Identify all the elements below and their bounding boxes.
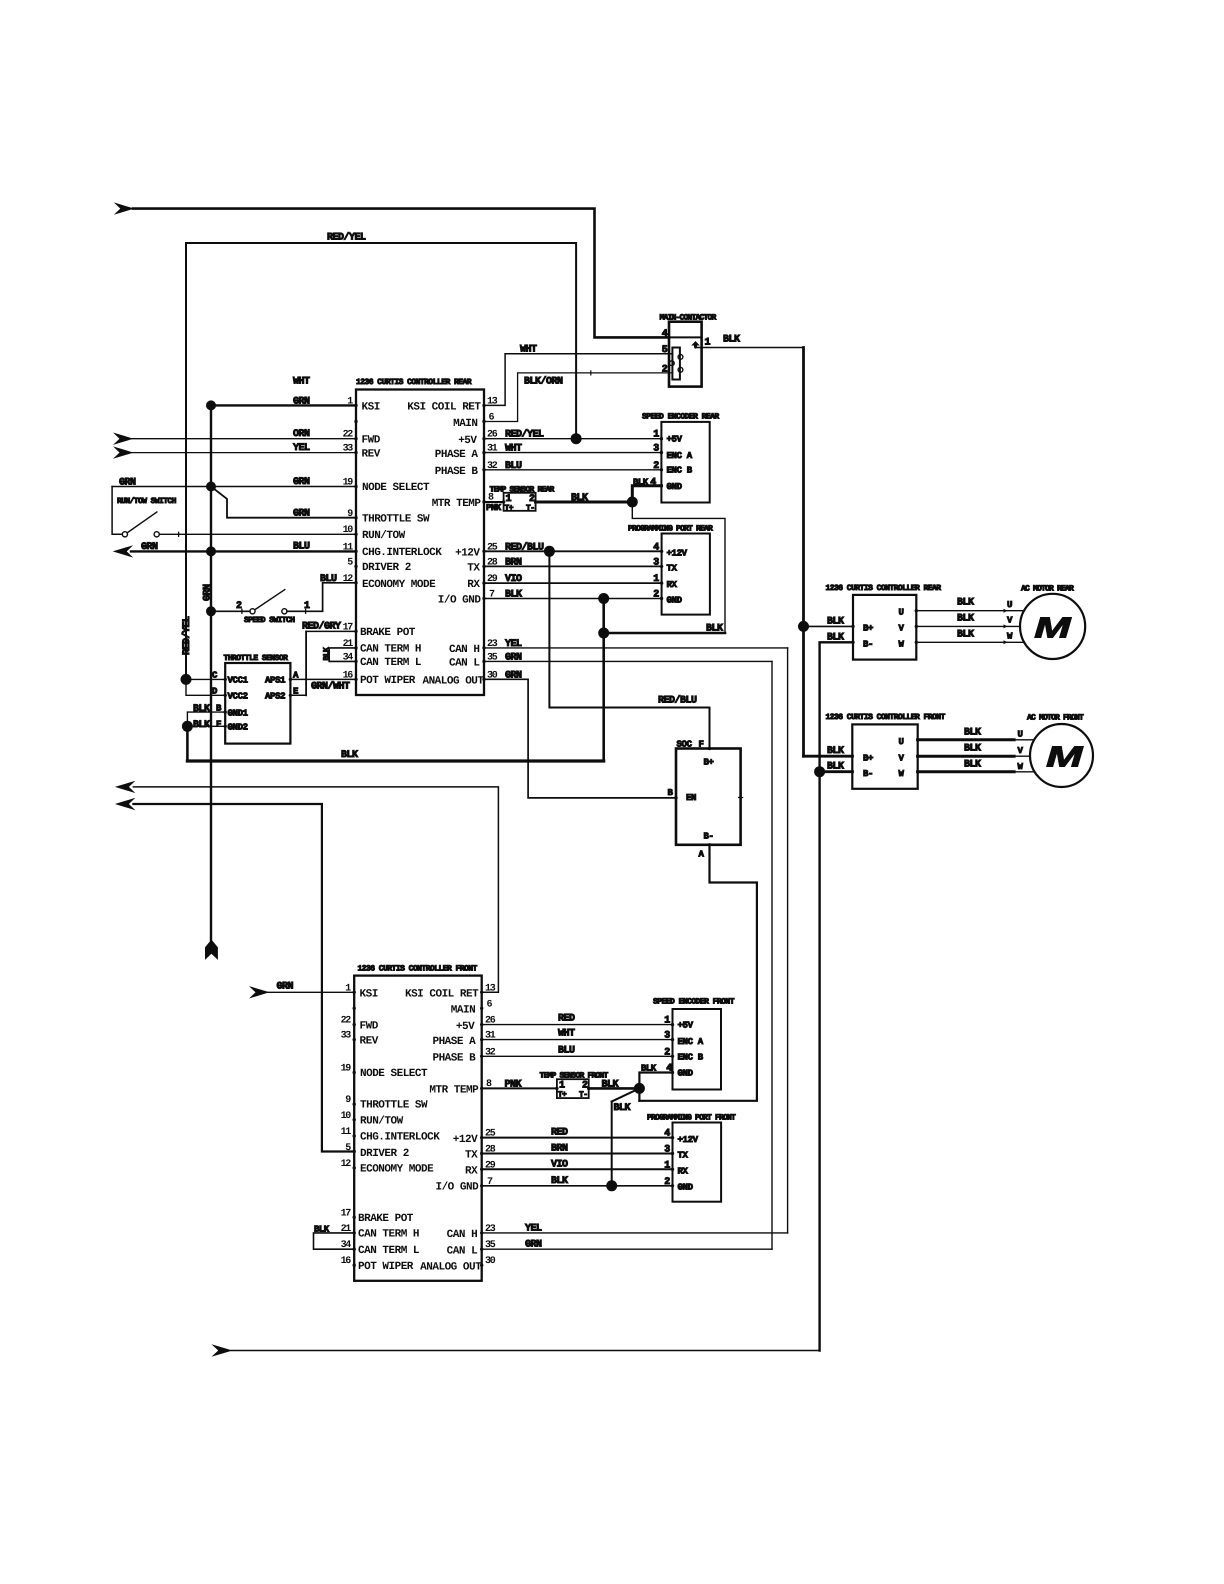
arrow feed FWD: [113, 433, 134, 445]
svg-text:GRN: GRN: [525, 1240, 542, 1251]
svg-text:VIO: VIO: [551, 1159, 568, 1170]
svg-text:KSI COIL RET: KSI COIL RET: [405, 989, 479, 1001]
svg-text:M: M: [1034, 613, 1072, 645]
svg-text:GND: GND: [667, 482, 683, 492]
svg-text:22: 22: [341, 1016, 352, 1027]
svg-text:BRN: BRN: [551, 1144, 568, 1155]
junction dot node select: [206, 482, 216, 492]
AC motor rear circle: [1020, 594, 1085, 659]
svg-text:TX: TX: [678, 1151, 689, 1161]
svg-text:F: F: [216, 720, 221, 730]
wire BLK up to encoder GND front: [639, 1073, 672, 1089]
svg-text:BLK: BLK: [957, 613, 974, 624]
svg-text:B-: B-: [863, 769, 873, 779]
svg-text:RED: RED: [558, 1014, 575, 1025]
svg-text:BLK: BLK: [314, 1224, 330, 1234]
wire CAN L front GRN: [482, 1248, 772, 1250]
svg-text:BLK: BLK: [964, 744, 981, 755]
wire KSI COIL RET 13 to contactor pin 5 (WHT): [484, 354, 672, 406]
svg-text:11: 11: [343, 542, 354, 553]
box throttle sensor: [225, 663, 290, 744]
svg-text:POT WIPER: POT WIPER: [360, 675, 416, 687]
svg-text:BLK: BLK: [706, 624, 723, 635]
junction dot chg interlock: [206, 546, 216, 556]
junction dot temp front: [634, 1083, 645, 1094]
svg-text:CAN TERM L: CAN TERM L: [358, 1245, 420, 1257]
junction dot temp/gnd rear: [627, 497, 638, 508]
arrow out ksi coil ret front: [115, 781, 135, 793]
wire CAN H rear YEL to trunk: [484, 647, 788, 649]
AC motor front circle: [1030, 724, 1093, 787]
wire temp BLK front to junction: [589, 1087, 640, 1090]
wire GND1: [187, 712, 225, 726]
svg-text:BRN: BRN: [505, 557, 522, 568]
svg-text:RX: RX: [667, 580, 678, 590]
svg-text:ECONOMY MODE: ECONOMY MODE: [362, 579, 436, 591]
box main contactor: [669, 322, 702, 387]
wire RED/GRY brake pot pin 17: [306, 630, 356, 632]
svg-text:DRIVER 2: DRIVER 2: [362, 562, 411, 574]
svg-text:10: 10: [341, 1111, 352, 1122]
svg-text:MAIN: MAIN: [451, 1005, 475, 1017]
wire to VCC2: [186, 679, 225, 695]
wire driver2 front feed: [133, 804, 354, 1152]
svg-text:33: 33: [343, 444, 354, 455]
svg-text:YEL: YEL: [525, 1223, 542, 1234]
svg-text:REV: REV: [362, 448, 381, 460]
svg-text:GRN: GRN: [203, 584, 214, 601]
svg-text:BLK: BLK: [827, 616, 844, 627]
svg-text:WHT: WHT: [558, 1029, 575, 1040]
svg-text:MAIN-CONTACTOR: MAIN-CONTACTOR: [660, 314, 717, 323]
wire W rear: [916, 641, 1024, 643]
tick w rear: [1004, 640, 1008, 644]
svg-text:BLK: BLK: [551, 1176, 568, 1187]
svg-text:PNK: PNK: [505, 1079, 522, 1090]
svg-text:BLK: BLK: [827, 746, 844, 757]
wire SOC A to front gnd junction: [639, 845, 757, 1101]
wire +12V RED front: [482, 1137, 673, 1139]
svg-text:17: 17: [343, 622, 354, 633]
svg-text:VCC1: VCC1: [228, 676, 249, 686]
svg-text:BLK: BLK: [827, 632, 844, 643]
wire U front: [918, 738, 1014, 741]
svg-text:BLK: BLK: [341, 750, 358, 761]
wire +5V RED/YEL to encoder: [484, 438, 661, 440]
svg-text:RUN/TOW SWITCH: RUN/TOW SWITCH: [117, 497, 177, 506]
diagonal BLK to gnd trunk front: [612, 1088, 640, 1101]
svg-text:RUN/TOW: RUN/TOW: [362, 530, 406, 542]
GRN trunk vertical x211: [210, 405, 212, 940]
box programming port rear: [662, 534, 710, 615]
pin tick marks front controller: [353, 991, 484, 1267]
tick contactor pin 1: [701, 346, 703, 350]
svg-text:YEL: YEL: [505, 639, 522, 650]
bottom arrow feed: [212, 1344, 233, 1356]
svg-text:PHASE B: PHASE B: [435, 466, 479, 478]
speed switch blade: [255, 590, 285, 610]
svg-text:WHT: WHT: [520, 344, 537, 355]
svg-text:DRIVER 2: DRIVER 2: [360, 1148, 409, 1160]
svg-text:GND2: GND2: [228, 723, 248, 733]
wire RX VIO: [484, 582, 662, 584]
svg-text:13: 13: [485, 983, 496, 994]
wire run/tow to pin 10: [159, 533, 356, 535]
wire I/O GND BLK front: [482, 1185, 673, 1187]
arrow out GRN (chg interlock): [113, 545, 134, 557]
wire bottom feed: [231, 1350, 820, 1352]
coil arrow symbol: [691, 341, 700, 348]
tick speed switch right: [305, 609, 307, 613]
svg-text:POT WIPER: POT WIPER: [358, 1261, 414, 1273]
wire W front thin tail: [1014, 771, 1033, 773]
svg-text:MTR TEMP: MTR TEMP: [432, 498, 482, 510]
svg-text:RED/GRY: RED/GRY: [302, 621, 341, 633]
wire gnd trunk down to BLK bus: [186, 726, 189, 761]
svg-text:GND: GND: [667, 596, 683, 606]
wire MTR TEMP PNK: [484, 501, 504, 503]
svg-text:CHG.INTERLOCK: CHG.INTERLOCK: [360, 1132, 440, 1144]
svg-text:B-: B-: [863, 639, 873, 649]
junction dot B+ rear: [798, 621, 809, 632]
wire CAN L rear GRN to trunk: [484, 660, 772, 662]
svg-text:M: M: [1046, 742, 1084, 774]
wire GRN to KSI pin 1: [211, 404, 356, 406]
svg-text:22: 22: [343, 430, 354, 441]
junction dot io gnd pin7: [598, 593, 609, 604]
svg-text:RED/YEL: RED/YEL: [327, 232, 366, 244]
svg-text:VCC2: VCC2: [228, 692, 248, 702]
B+ trunk from contactor: [802, 348, 805, 757]
junction dot gnd2: [182, 721, 193, 732]
svg-text:12: 12: [343, 574, 354, 585]
svg-text:T-: T-: [526, 504, 534, 513]
wire ANALOG OUT 30 GRN to SOC EN: [484, 679, 676, 798]
tick u rear: [1004, 609, 1008, 613]
wire +5V RED front: [482, 1024, 673, 1026]
svg-text:MTR TEMP: MTR TEMP: [429, 1084, 479, 1096]
svg-text:CAN L: CAN L: [447, 1245, 478, 1257]
wire RED/YEL top horizontal: [186, 243, 576, 679]
svg-text:ECONOMY MODE: ECONOMY MODE: [360, 1164, 434, 1176]
svg-text:THROTTLE SW: THROTTLE SW: [362, 514, 430, 526]
svg-text:BLK: BLK: [827, 762, 844, 773]
gnd trunk vertical x603: [602, 599, 605, 762]
bump right lower: [678, 367, 683, 372]
svg-text:CAN L: CAN L: [449, 658, 480, 670]
svg-text:GND: GND: [678, 1069, 694, 1079]
svg-text:+5V: +5V: [458, 435, 477, 447]
box speed encoder front: [673, 1009, 722, 1090]
tick soc right edge: [739, 797, 743, 799]
svg-text:BLK: BLK: [571, 493, 588, 504]
svg-text:RED: RED: [551, 1128, 568, 1139]
wire BLK up to encoder GND: [632, 486, 661, 502]
wire B- rear: [820, 642, 853, 1350]
wire PHASE A WHT: [484, 452, 661, 454]
svg-text:BLK: BLK: [723, 335, 740, 346]
svg-text:BLK: BLK: [193, 720, 210, 731]
wire APS1 to pot wiper pin 16: [290, 678, 356, 680]
inner connector rect: [672, 348, 680, 380]
box temp sensor front: [557, 1079, 589, 1098]
pin tick marks rear controller: [354, 404, 485, 681]
wire PHASE A WHT front: [482, 1039, 673, 1041]
gnd trunk front vertical: [611, 1102, 613, 1186]
svg-text:19: 19: [341, 1064, 352, 1075]
svg-text:ORN: ORN: [293, 429, 310, 440]
svg-text:19: 19: [343, 478, 354, 489]
svg-text:WHT: WHT: [293, 377, 310, 388]
svg-text:B+: B+: [863, 753, 873, 763]
svg-text:I/O GND: I/O GND: [435, 1182, 479, 1194]
svg-text:ANALOG OUT: ANALOG OUT: [422, 676, 484, 688]
svg-text:U: U: [898, 608, 903, 618]
svg-text:RED/BLU: RED/BLU: [505, 541, 544, 553]
svg-text:+5V: +5V: [456, 1021, 475, 1033]
svg-text:+12V: +12V: [453, 1134, 478, 1146]
svg-text:THROTTLE SENSOR: THROTTLE SENSOR: [224, 654, 289, 663]
svg-text:CHG.INTERLOCK: CHG.INTERLOCK: [362, 547, 442, 559]
svg-text:BLK: BLK: [957, 629, 974, 640]
wire PHASE B BLU front: [482, 1055, 673, 1057]
svg-text:12: 12: [341, 1159, 352, 1170]
wire junction down to soc A loop: [638, 1088, 640, 1100]
svg-text:GRN: GRN: [505, 670, 522, 681]
svg-text:CAN TERM H: CAN TERM H: [358, 1229, 419, 1241]
svg-text:ENC B: ENC B: [678, 1053, 704, 1063]
svg-text:U: U: [1018, 730, 1023, 740]
junction dot speed switch: [206, 606, 216, 616]
svg-text:U: U: [898, 737, 903, 747]
svg-text:PHASE A: PHASE A: [435, 449, 479, 461]
wire +12V RED/BLU: [484, 550, 662, 552]
svg-text:VIO: VIO: [505, 574, 522, 585]
wire B- front: [820, 770, 853, 773]
svg-text:16: 16: [341, 1256, 352, 1267]
box 1236 Curtis Controller Rear: [356, 390, 484, 696]
svg-text:AC MOTOR REAR: AC MOTOR REAR: [1021, 585, 1074, 594]
wire B+ front from trunk: [804, 755, 853, 758]
svg-text:1236 CURTIS CONTROLLER REAR: 1236 CURTIS CONTROLLER REAR: [826, 584, 942, 593]
svg-text:YEL: YEL: [293, 443, 310, 454]
box 1236 Curtis Controller Front: [354, 976, 482, 1281]
svg-text:CAN H: CAN H: [449, 644, 480, 656]
bump right upper: [678, 355, 683, 360]
svg-text:B+: B+: [863, 623, 873, 633]
svg-text:B+: B+: [704, 758, 714, 768]
wire B+ rear: [804, 625, 854, 627]
svg-text:BRAKE POT: BRAKE POT: [360, 627, 416, 639]
svg-text:34: 34: [343, 652, 354, 663]
wire to VCC1: [186, 678, 225, 680]
wire U rear: [916, 610, 1024, 612]
wire CAN H front YEL: [482, 1232, 788, 1234]
wire W front: [918, 770, 1014, 773]
svg-text:BLU: BLU: [558, 1045, 575, 1056]
svg-text:BRAKE POT: BRAKE POT: [358, 1213, 414, 1225]
svg-text:10: 10: [343, 525, 354, 536]
arrow feed REV: [113, 446, 134, 458]
svg-text:CAN TERM H: CAN TERM H: [360, 644, 421, 656]
svg-text:BLK: BLK: [505, 590, 522, 601]
svg-text:PROGRAMMING PORT FRONT: PROGRAMMING PORT FRONT: [647, 1113, 736, 1122]
svg-text:16: 16: [343, 671, 354, 682]
svg-text:GRN: GRN: [293, 477, 310, 488]
svg-text:+5V: +5V: [667, 434, 683, 444]
vertical brake pot to APS: [305, 631, 307, 695]
box 1236 curtis controller rear power: [853, 595, 916, 660]
junction dot at GRN trunk / KSI: [206, 400, 216, 410]
svg-text:+12V: +12V: [667, 549, 688, 559]
wire contactor pin1 BLK to B+ trunk: [696, 347, 804, 349]
wire YEL to REV pin 33: [132, 452, 356, 454]
svg-text:I/O GND: I/O GND: [438, 595, 482, 607]
tick on run/tow wire: [178, 532, 180, 536]
wire ORN to FWD pin 22: [132, 438, 356, 440]
svg-text:PNK: PNK: [486, 503, 502, 513]
tick v rear: [1004, 624, 1008, 628]
wire to speed switch left: [211, 610, 250, 612]
svg-text:1236 CURTIS CONTROLLER REAR: 1236 CURTIS CONTROLLER REAR: [356, 378, 472, 387]
wire speed switch to economy mode pin 12: [287, 583, 356, 612]
wire APS2 jog: [290, 694, 306, 696]
wire BLU to CHG.INTERLOCK pin 11: [131, 550, 356, 552]
svg-text:RUN/TOW: RUN/TOW: [360, 1115, 404, 1127]
svg-text:TEMP SENSOR REAR: TEMP SENSOR REAR: [490, 485, 555, 494]
wire TX BRN front: [482, 1153, 673, 1155]
speed switch right contact: [282, 609, 287, 614]
svg-text:GND: GND: [678, 1183, 694, 1193]
svg-text:APS2: APS2: [265, 692, 285, 702]
svg-text:1236 CURTIS CONTROLLER FRONT: 1236 CURTIS CONTROLLER FRONT: [358, 964, 478, 973]
junction dot VCC1 red/yel: [181, 674, 192, 685]
svg-text:NODE SELECT: NODE SELECT: [362, 482, 430, 494]
svg-text:TX: TX: [465, 1150, 478, 1162]
svg-text:REV: REV: [360, 1035, 379, 1047]
junction dot B- front: [814, 766, 825, 777]
svg-text:KSI: KSI: [360, 989, 378, 1001]
svg-text:17: 17: [341, 1208, 352, 1219]
svg-text:SPEED ENCODER REAR: SPEED ENCODER REAR: [642, 412, 719, 421]
arrow out driver2 front: [115, 798, 135, 810]
svg-text:+12V: +12V: [678, 1135, 699, 1145]
svg-text:F: F: [699, 739, 704, 749]
wire BLK gnd horizontal to loop: [604, 632, 725, 635]
svg-text:KSI: KSI: [362, 402, 380, 414]
svg-text:B-: B-: [704, 832, 714, 842]
bump left: [669, 361, 674, 366]
arrow feed GRN ksi front: [249, 986, 270, 998]
svg-text:AC MOTOR FRONT: AC MOTOR FRONT: [1027, 713, 1084, 722]
junction dot red/yel +5V: [571, 433, 582, 444]
wire TX BRN: [484, 565, 662, 567]
svg-text:+5V: +5V: [678, 1020, 694, 1030]
run/tow switch blade: [128, 512, 157, 533]
svg-text:PHASE A: PHASE A: [432, 1036, 476, 1048]
box 1236 curtis controller front power: [852, 724, 917, 788]
run/tow switch frame wire: [112, 487, 122, 535]
svg-text:34: 34: [341, 1240, 352, 1251]
svg-text:RED/BLU: RED/BLU: [658, 695, 697, 707]
svg-text:RX: RX: [467, 579, 480, 591]
svg-text:U: U: [1007, 600, 1012, 610]
svg-text:21: 21: [343, 639, 354, 650]
svg-text:GRN: GRN: [505, 652, 522, 663]
svg-text:BLK: BLK: [602, 1079, 619, 1090]
wire MTR TEMP PNK front: [482, 1087, 557, 1089]
svg-text:T-: T-: [579, 1091, 587, 1100]
CAN jumper front (pins 21-34): [314, 1233, 355, 1249]
run/tow switch right contact: [154, 532, 159, 537]
wire GRN diagonal to THROTTLE SW pin 9: [211, 487, 356, 518]
svg-text:APS1: APS1: [265, 676, 286, 686]
divider main contactor: [669, 336, 702, 338]
svg-text:BLK: BLK: [964, 759, 981, 770]
svg-text:PROGRAMMING PORT REAR: PROGRAMMING PORT REAR: [628, 525, 713, 534]
svg-text:BLK: BLK: [964, 727, 981, 738]
wire top feed horizontal y208: [133, 209, 669, 338]
svg-text:BLU: BLU: [505, 461, 522, 472]
wire V front: [918, 755, 1014, 758]
svg-text:TX: TX: [667, 564, 678, 574]
box speed encoder rear: [661, 422, 709, 503]
wire GND2: [187, 725, 225, 727]
wire GRN to NODE SELECT pin 19: [112, 486, 356, 488]
svg-text:T+: T+: [505, 504, 514, 513]
svg-text:SPEED ENCODER FRONT: SPEED ENCODER FRONT: [653, 997, 735, 1006]
svg-text:RED/YEL: RED/YEL: [181, 616, 193, 655]
CAN H trunk vertical: [787, 648, 789, 1233]
svg-text:30: 30: [485, 1256, 496, 1267]
CAN L trunk vertical: [771, 661, 773, 1249]
svg-text:21: 21: [341, 1224, 352, 1235]
svg-text:PHASE B: PHASE B: [432, 1053, 476, 1065]
svg-text:THROTTLE SW: THROTTLE SW: [360, 1100, 428, 1112]
svg-text:ENC B: ENC B: [667, 466, 693, 476]
wire RED/BLU down to SOC F: [549, 551, 709, 748]
wire V front thin tail: [1014, 755, 1030, 757]
svg-text:EN: EN: [686, 793, 696, 803]
tick speed switch left: [241, 609, 243, 613]
svg-text:GRN/WHT: GRN/WHT: [311, 681, 350, 693]
svg-text:11: 11: [341, 1127, 352, 1138]
CAN jumper rear (pins 21-34): [329, 648, 356, 662]
svg-text:CAN H: CAN H: [447, 1229, 478, 1241]
svg-text:33: 33: [341, 1031, 352, 1042]
svg-text:KSI COIL RET: KSI COIL RET: [407, 402, 481, 414]
svg-text:+12V: +12V: [455, 548, 480, 560]
svg-text:BLK: BLK: [614, 1103, 631, 1114]
svg-text:T+: T+: [558, 1091, 567, 1100]
box SOC: [676, 749, 741, 845]
svg-text:ENC A: ENC A: [667, 451, 693, 461]
wire MAIN 6 to contactor pin 2 (BLK/ORN): [484, 373, 672, 422]
svg-text:RED/YEL: RED/YEL: [505, 429, 544, 441]
arrow up at end of GRN trunk: [205, 940, 218, 960]
svg-text:TEMP SENSOR FRONT: TEMP SENSOR FRONT: [540, 1072, 609, 1081]
junction dot io gnd front: [606, 1180, 617, 1191]
wire PHASE B BLU: [484, 469, 661, 471]
svg-text:BLK/ORN: BLK/ORN: [524, 376, 563, 388]
svg-text:SOC: SOC: [677, 739, 693, 749]
wire RX VIO front: [482, 1168, 673, 1170]
box temp sensor rear: [504, 493, 536, 511]
svg-text:FWD: FWD: [360, 1020, 379, 1032]
svg-text:CAN TERM L: CAN TERM L: [360, 657, 422, 669]
svg-text:1236 CURTIS CONTROLLER FRONT: 1236 CURTIS CONTROLLER FRONT: [826, 713, 946, 722]
svg-text:GND1: GND1: [228, 709, 249, 719]
